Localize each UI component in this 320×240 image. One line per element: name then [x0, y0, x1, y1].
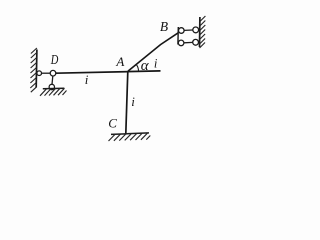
vertical member at B	[177, 27, 179, 45]
pin on wall at D	[37, 71, 42, 76]
wall at D hatching	[30, 48, 37, 92]
upper link at B	[184, 29, 193, 31]
lower link at B	[184, 41, 193, 43]
wall at B (vertical line)	[199, 17, 201, 47]
lower pin on wall at B	[193, 39, 199, 45]
angle arc at A	[136, 65, 138, 72]
svg-text:α: α	[141, 58, 150, 74]
svg-text:i: i	[85, 72, 89, 87]
svg-text:i: i	[131, 94, 135, 109]
lower pin at D support	[49, 84, 54, 89]
ground hatching under D support	[40, 88, 67, 96]
upper pin on wall at B	[193, 27, 199, 33]
svg-text:A: A	[115, 54, 124, 69]
ground line under D support	[43, 87, 65, 90]
svg-text:i: i	[154, 57, 158, 71]
ground line at C	[111, 133, 149, 135]
svg-text:D: D	[50, 53, 58, 68]
bar D-A and stub right of A	[56, 71, 161, 73]
inclined bar A-B	[128, 33, 178, 71]
horizontal link wall-to-D	[42, 72, 51, 74]
upper pin at B member	[179, 28, 185, 34]
svg-text:B: B	[160, 20, 169, 35]
wall at D (vertical line)	[35, 50, 38, 88]
vertical link below D	[51, 76, 54, 84]
wall at B hatching	[200, 16, 206, 48]
pin D	[50, 70, 56, 76]
vertical bar A-C	[126, 72, 128, 134]
svg-text:C: C	[108, 116, 117, 131]
ground hatching at C	[109, 133, 151, 141]
lower pin at B member	[178, 40, 184, 46]
